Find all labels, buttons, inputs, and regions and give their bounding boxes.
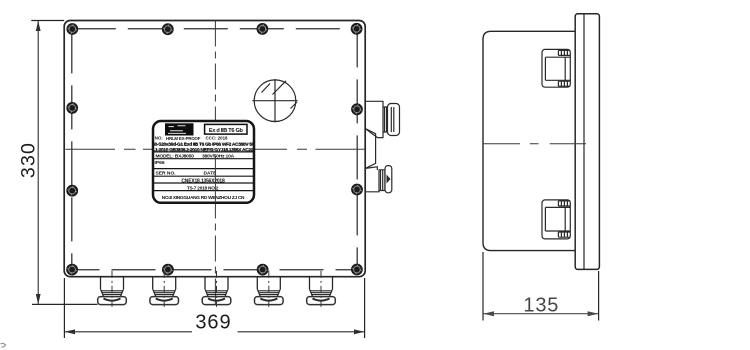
dim 369 line with arrows — [65, 329, 365, 334]
svg-text:NO.8 XINGGUANG RD WENZHOU ZJ C: NO.8 XINGGUANG RD WENZHOU ZJ CN — [162, 195, 245, 201]
plate background — [153, 121, 254, 203]
screw top-left corner — [66, 23, 78, 35]
horizontal centerline right segment — [254, 148, 365, 150]
front view enclosure flange outline — [64, 21, 365, 277]
svg-text:135: 135 — [523, 294, 559, 316]
screw right lower — [351, 184, 363, 196]
cable gland 4 — [254, 271, 283, 307]
screw right upper — [351, 103, 363, 115]
plate divider — [154, 175, 254, 177]
stray artifact mark bottom-left — [1, 343, 6, 347]
dim 369 extension left — [63, 278, 65, 338]
bolt-circle dashed inner rectangle — [72, 29, 357, 270]
boss between connectors — [365, 129, 375, 169]
svg-text:IP66: IP66 — [155, 160, 165, 166]
svg-text:369: 369 — [195, 311, 231, 333]
dim 135 extension left — [482, 252, 484, 321]
svg-text:SER NO.: SER NO. — [156, 170, 177, 176]
horizontal centerline left segment — [66, 148, 154, 150]
plate divider — [154, 182, 254, 184]
centerline over plate — [214, 156, 216, 203]
plate divider — [154, 190, 254, 192]
right side connector bottom — [365, 166, 392, 193]
screw bottom-right corner — [351, 264, 363, 276]
screw bottom-left corner — [66, 264, 78, 276]
screw top mid-right — [257, 23, 269, 35]
dim 330 extension top — [31, 20, 64, 22]
svg-text:NO.: NO. — [155, 136, 163, 141]
screw bottom mid-left — [162, 264, 174, 276]
dim 330 extension bottom — [32, 303, 98, 305]
svg-text:HRLM EX-PROOF: HRLM EX-PROOF — [166, 136, 201, 141]
cable gland 5 — [307, 271, 336, 307]
dim 135 extension right — [598, 271, 600, 321]
svg-text:330: 330 — [18, 142, 40, 178]
svg-text:Ex d IIB T6 Gb: Ex d IIB T6 Gb — [209, 128, 244, 134]
side view cover plate — [575, 14, 599, 270]
cable gland 1 — [98, 271, 127, 307]
side connector top — [542, 49, 570, 87]
dim 330 line with arrows — [36, 21, 41, 305]
dim 369 extension right — [364, 278, 366, 338]
breather circle with hatch — [252, 79, 297, 122]
svg-text:TS-7 2018 NO.2: TS-7 2018 NO.2 — [187, 185, 219, 190]
plate cert box — [205, 124, 247, 134]
plate inner line — [583, 14, 585, 270]
screw bottom mid-right — [257, 264, 269, 276]
side centerline — [483, 143, 586, 145]
cable gland 3 — [202, 271, 231, 307]
screw top-right corner — [351, 23, 363, 35]
side view body — [483, 31, 575, 250]
plate logo block — [165, 123, 194, 135]
vertical centerline — [214, 21, 216, 306]
screw left lower — [66, 185, 78, 197]
dim 135 line with arrows — [483, 311, 598, 316]
plate divider — [154, 168, 254, 170]
plate divider — [154, 151, 254, 153]
plate divider — [154, 158, 254, 160]
cable gland 2 — [150, 271, 179, 307]
svg-text:BXJ8050-S20x36d-G1 Exd IIB T6: BXJ8050-S20x36d-G1 Exd IIB T6 Gb IP66 WF… — [139, 142, 269, 148]
screw top mid-left — [162, 23, 174, 35]
svg-text:CCC: 2018: CCC: 2018 — [206, 135, 229, 140]
side connector bottom — [542, 200, 570, 239]
right side connector top — [365, 101, 399, 137]
screw left upper — [66, 102, 78, 114]
